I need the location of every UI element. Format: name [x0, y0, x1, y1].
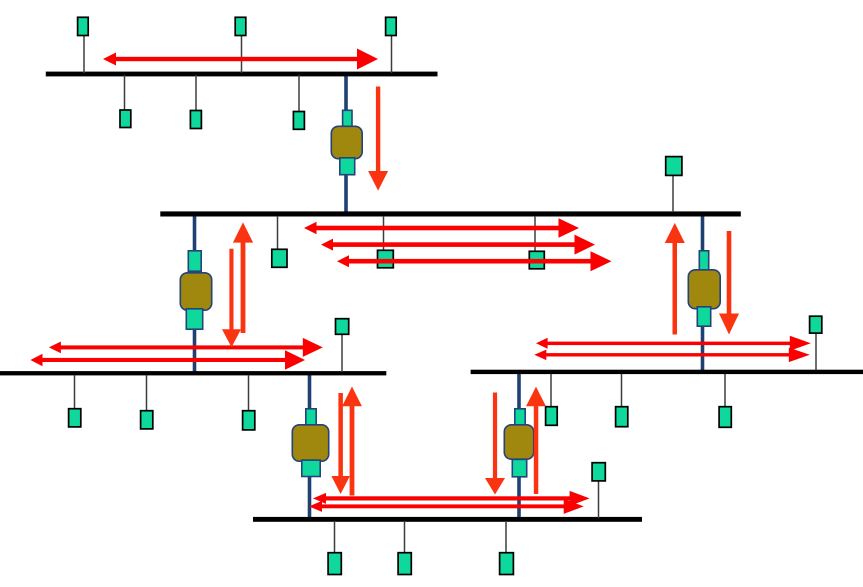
station D3 below bus4 [719, 374, 731, 427]
traffic arrow 2 above bus5 [309, 499, 584, 514]
bridge 5 (bus4 to bus5) [504, 409, 533, 477]
traffic arrow 2 below bus2 [321, 235, 595, 255]
wire bridge1 trunk [344, 73, 348, 214]
forward arrow down at bridge2 [222, 249, 241, 348]
station A1 above bus1 [78, 17, 89, 73]
traffic arrow 1 above bus5 [313, 491, 590, 506]
forward arrow down at bridge1 [368, 87, 388, 191]
station D2 below bus4 [616, 374, 628, 427]
traffic arrow 3 below bus2 [337, 251, 612, 271]
station B4 above bus2 [666, 157, 682, 212]
forward arrow up at bridge3 [665, 223, 685, 335]
wire bridge5 trunk [517, 371, 521, 520]
station A3 above bus1 [386, 17, 397, 73]
forward arrow down at bridge4 [331, 393, 350, 494]
station D1 below bus4 [546, 374, 558, 425]
bus segment 4 (lower right) [471, 370, 863, 374]
station A2 above bus1 [235, 17, 246, 73]
forward arrow down at bridge5 [485, 393, 505, 495]
station C2 below bus3 [141, 375, 153, 429]
station C3 below bus3 [243, 375, 255, 430]
station E1 below bus5 [328, 521, 341, 575]
forward arrow down at bridge3 [719, 231, 739, 335]
station C1 below bus3 [69, 375, 81, 427]
station E3 below bus5 [500, 521, 514, 575]
traffic arrow 1 below bus2 [304, 218, 579, 238]
station B3 below bus2 [529, 216, 544, 269]
wire bridge2 trunk [193, 213, 197, 374]
station B1 below bus2 [272, 216, 287, 267]
traffic arrow 2 above bus3 [31, 350, 306, 370]
bridge 3 (bus2 to bus4) [688, 251, 720, 326]
station E2 below bus5 [398, 521, 411, 575]
station D4 above bus4 [810, 316, 822, 370]
bus segment 2 (middle) [160, 211, 741, 216]
traffic arrow on bus1 [103, 49, 378, 70]
bridge 4 (bus3 to bus5) [292, 409, 328, 477]
traffic arrow 1 above bus4 [536, 336, 811, 351]
station A6 below bus1 [293, 75, 304, 129]
bridge 1 (bus1 to bus2) [331, 110, 362, 174]
station E4 above bus5 [592, 463, 605, 518]
wire bridge3 trunk [701, 213, 705, 372]
forward arrow up at bridge5 [526, 387, 546, 494]
bridge 2 (bus2 to bus3) [180, 251, 211, 329]
station A5 below bus1 [190, 75, 201, 129]
bus segment 3 (lower left) [0, 371, 386, 375]
forward arrow up at bridge2 [233, 222, 253, 333]
station A4 below bus1 [120, 75, 131, 128]
traffic arrow 1 above bus3 [49, 338, 323, 357]
bus segment 5 (bottom) [253, 517, 642, 522]
station C4 above bus3 [336, 319, 349, 372]
traffic arrow 2 above bus4 [534, 348, 810, 363]
bus segment 1 (top) [46, 72, 438, 77]
wire bridge4 trunk [308, 373, 312, 520]
station B2 below bus2 [378, 216, 394, 268]
forward arrow up at bridge4 [342, 387, 362, 496]
